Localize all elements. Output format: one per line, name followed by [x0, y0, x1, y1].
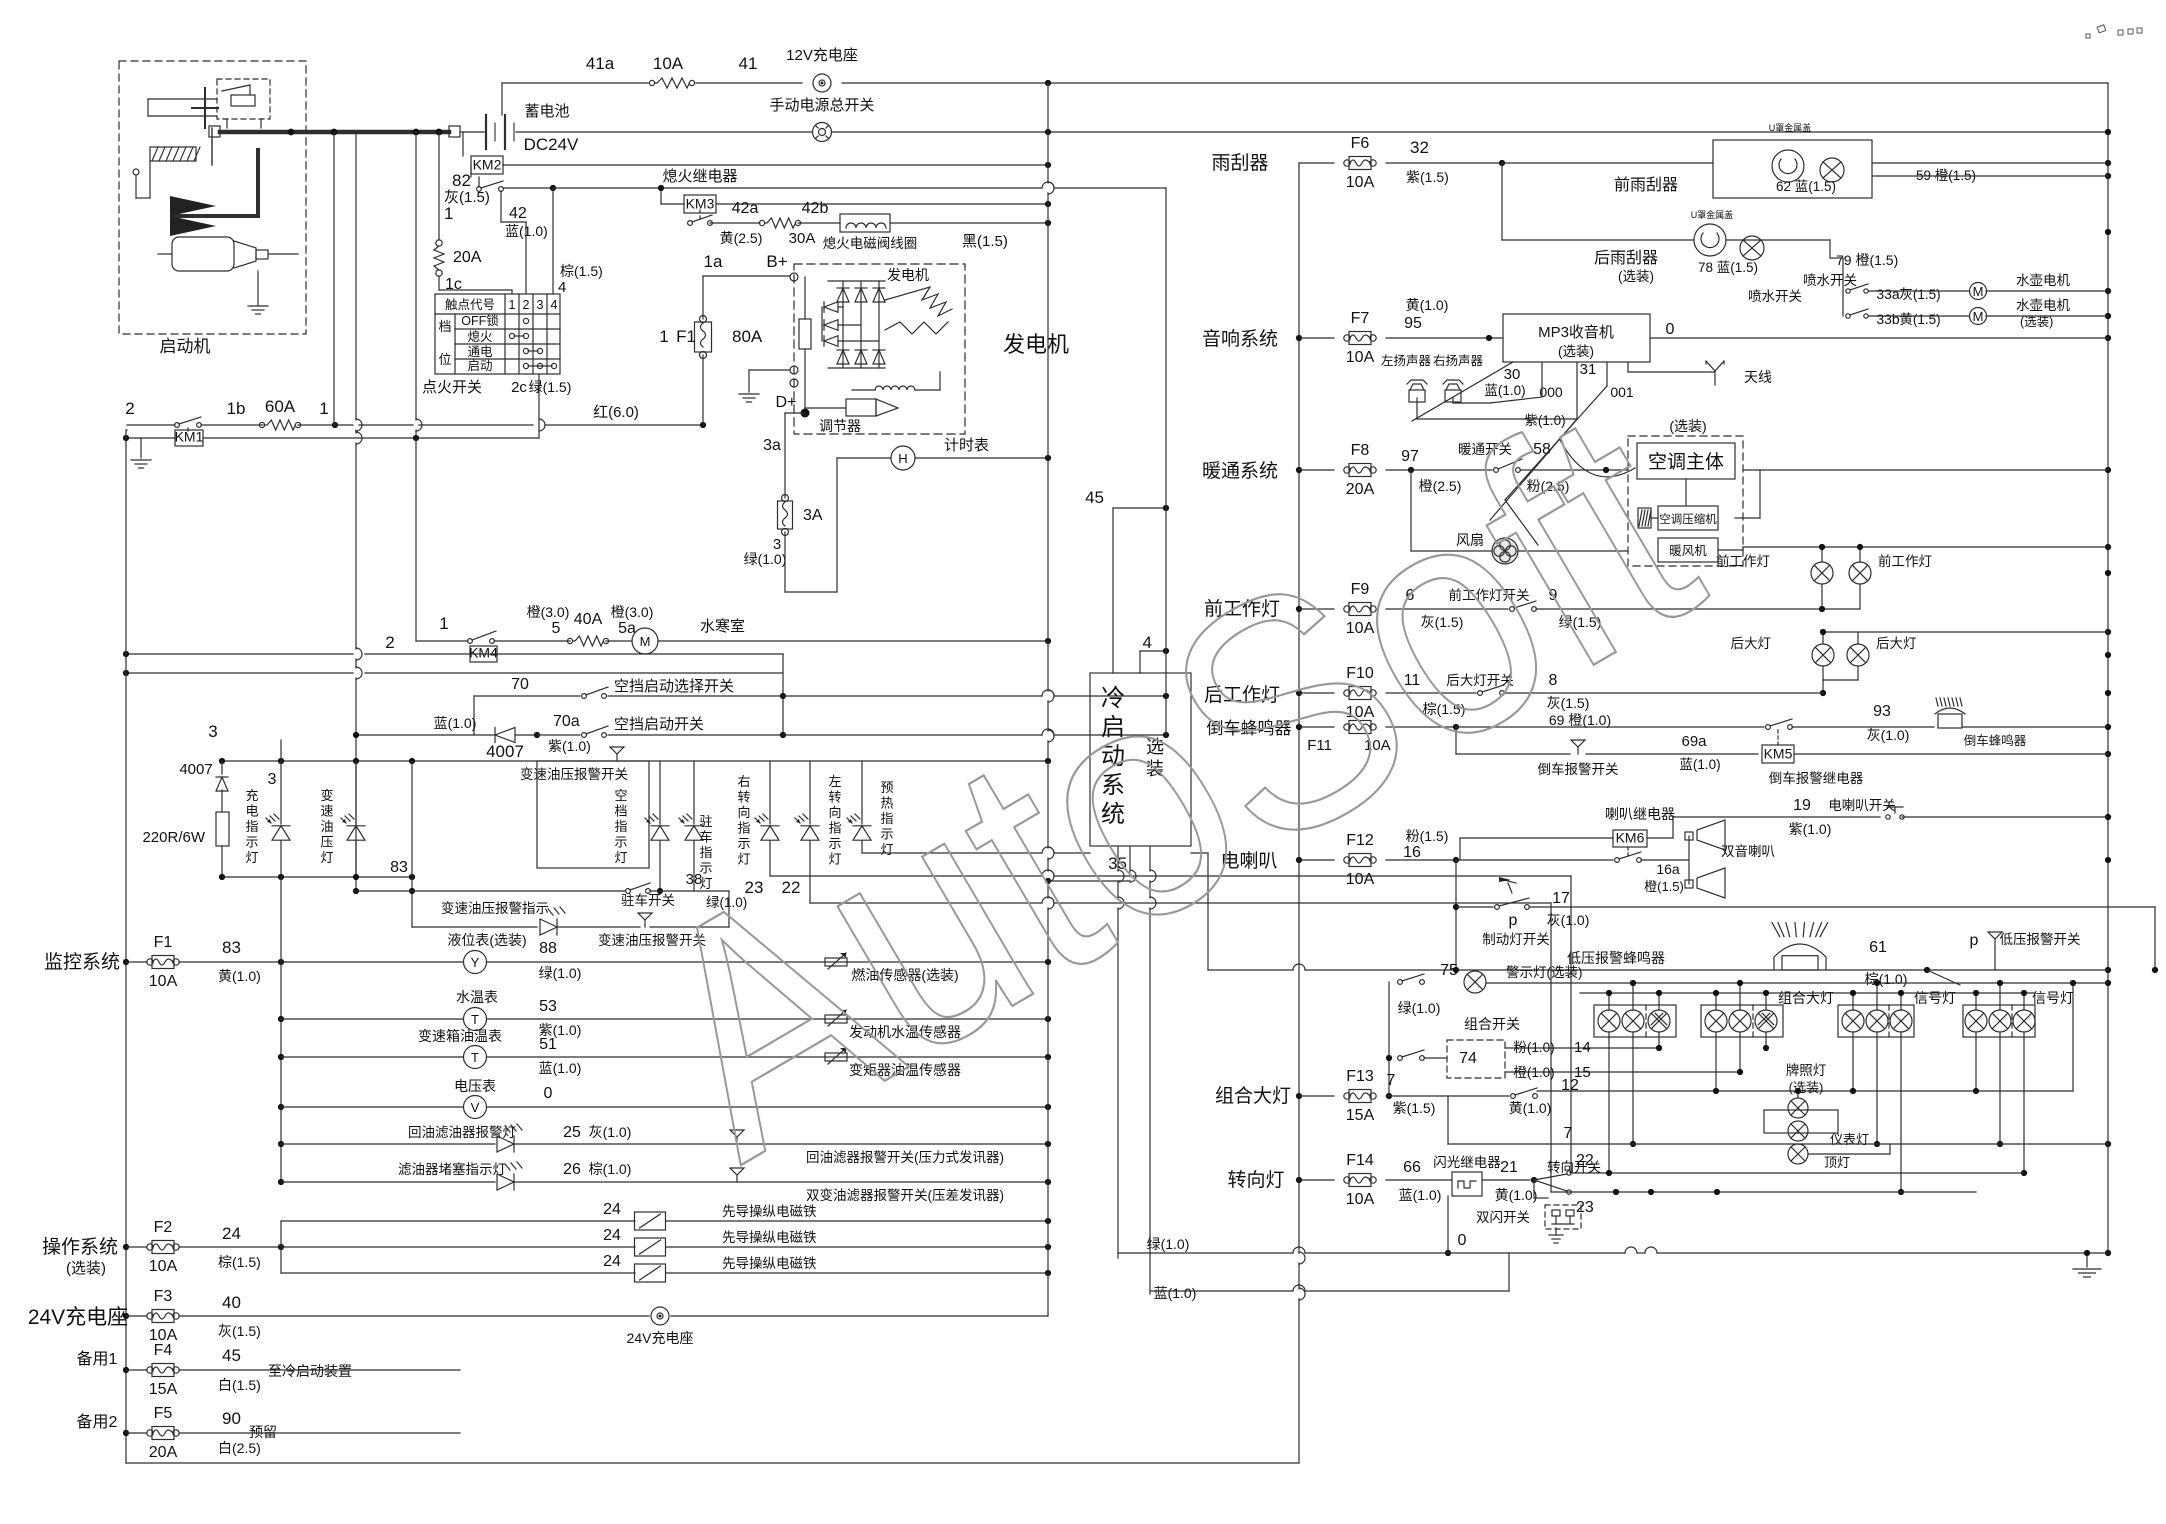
- svg-text:62 蓝(1.5): 62 蓝(1.5): [1776, 179, 1836, 194]
- generator dashed box 发电机: [794, 264, 965, 434]
- fuse F11 10A: [1349, 721, 1371, 734]
- svg-text:M: M: [1973, 309, 1984, 324]
- svg-text:66: 66: [1403, 1159, 1421, 1176]
- collector row y=877 + node 83: [222, 876, 412, 878]
- svg-text:24: 24: [603, 1253, 621, 1270]
- HVAC switch 暖通开关: [1386, 469, 1492, 471]
- svg-text:粉(1.0): 粉(1.0): [1513, 1040, 1554, 1055]
- solenoid plunger / armature: [204, 88, 206, 128]
- rear lamp switch 后大灯开关: [1386, 692, 1476, 694]
- svg-text:变: 变: [320, 788, 333, 803]
- svg-text:电压表: 电压表: [454, 1078, 496, 1094]
- svg-text:93: 93: [1873, 703, 1891, 720]
- svg-text:KM4: KM4: [469, 645, 498, 661]
- svg-text:黄(1.0): 黄(1.0): [1406, 297, 1449, 313]
- svg-text:油: 油: [320, 819, 333, 834]
- svg-text:转: 转: [737, 790, 750, 805]
- front work lamp switch 前工作灯开关: [1386, 608, 1508, 610]
- svg-text:41: 41: [739, 54, 758, 73]
- svg-text:充: 充: [245, 788, 258, 803]
- svg-text:双音喇叭: 双音喇叭: [1721, 843, 1775, 859]
- svg-text:倒车报警继电器: 倒车报警继电器: [1769, 770, 1864, 786]
- contact terminal small circle: [133, 169, 139, 175]
- solenoid feed bracket: [280, 1221, 282, 1273]
- svg-text:液位表(选装): 液位表(选装): [447, 932, 526, 948]
- turn lamp rows 22/23: [1571, 1172, 2024, 1174]
- vertical x=359 crossing rows (S-jogs) down to indicator rows: [355, 132, 357, 420]
- wiper feed wire: [1386, 162, 1502, 164]
- lamp cluster top bus pair: [1486, 982, 2108, 984]
- svg-text:黄(1.0): 黄(1.0): [1495, 1187, 1538, 1203]
- svg-text:10A: 10A: [1346, 1191, 1375, 1208]
- svg-text:1b: 1b: [227, 399, 246, 418]
- cold start feed vertical from KM2: [1165, 188, 1167, 736]
- svg-text:压: 压: [320, 835, 333, 850]
- row to 24V socket: [179, 1315, 649, 1317]
- fuse F6 10A: [1299, 162, 1334, 164]
- svg-text:紫(1.5): 紫(1.5): [1406, 169, 1449, 185]
- svg-text:3a: 3a: [763, 437, 781, 454]
- relay KM5: [1762, 745, 1794, 763]
- wire 1a: [703, 275, 790, 277]
- svg-text:12V充电座: 12V充电座: [786, 47, 858, 64]
- svg-text:220R/6W: 220R/6W: [142, 829, 205, 846]
- svg-text:水寒室: 水寒室: [700, 617, 745, 635]
- svg-text:变速油压报警开关: 变速油压报警开关: [520, 767, 628, 782]
- starter relay (dashed box with contact): [217, 79, 270, 119]
- svg-text:调节器: 调节器: [819, 418, 861, 434]
- svg-text:橙(3.0): 橙(3.0): [527, 604, 570, 620]
- warning lamp 警示灯(选装): [1388, 982, 1390, 1096]
- svg-text:(选装): (选装): [1618, 269, 1654, 284]
- svg-text:25: 25: [563, 1124, 581, 1141]
- right supply bus x=2108: [2107, 83, 2109, 1253]
- svg-text:H: H: [898, 451, 907, 466]
- cold start option box 冷启动选装系统: [1090, 673, 1191, 846]
- svg-text:3: 3: [537, 298, 544, 312]
- svg-text:启动: 启动: [467, 359, 492, 373]
- svg-text:17: 17: [1552, 890, 1570, 907]
- dual filter warning switch 双变油滤器报警开关: [730, 1168, 744, 1175]
- fuel sensor 燃油传感器: [825, 958, 847, 966]
- generator rectifier diodes bottom row: [837, 350, 849, 364]
- A/C wiring to bus: [1743, 469, 2108, 471]
- main black return bus (vertical): [1047, 83, 1049, 183]
- headlamp cluster 2 box: [1701, 1005, 1783, 1037]
- svg-text:(选装): (选装): [66, 1260, 106, 1277]
- svg-text:F2: F2: [154, 1219, 173, 1236]
- generator exciter diodes (left): [824, 302, 838, 313]
- KM1 ground branch: [140, 438, 142, 458]
- wire KM2 switch output to cold-start vertical (hop over main bus): [503, 187, 553, 189]
- red 6.0 wire to F1/generator: [335, 424, 353, 426]
- svg-text:2: 2: [385, 633, 394, 652]
- svg-text:24: 24: [222, 1224, 241, 1243]
- battery thick bus bar with terminals: [209, 126, 220, 137]
- svg-text:42b: 42b: [802, 200, 829, 217]
- box right output to low-voltage alarm row: [1191, 852, 1208, 854]
- svg-text:3: 3: [268, 771, 277, 788]
- svg-text:F4: F4: [154, 1342, 173, 1359]
- left bus vertical: [125, 430, 127, 1463]
- svg-text:F7: F7: [1351, 310, 1370, 327]
- svg-text:触点代号: 触点代号: [445, 298, 495, 312]
- svg-text:档: 档: [614, 804, 627, 819]
- long distribution row y=761: [222, 760, 1048, 762]
- svg-text:KM3: KM3: [686, 196, 715, 212]
- battery 蓄电池 DC24V: [460, 131, 484, 133]
- svg-text:OFF锁: OFF锁: [461, 313, 499, 328]
- signal lamp cluster 4 box 信号灯: [1963, 1005, 2035, 1037]
- svg-text:黄(2.5): 黄(2.5): [720, 230, 763, 246]
- svg-text:蓝(1.0): 蓝(1.0): [1679, 757, 1720, 772]
- dome lamp 顶灯: [1788, 1144, 1808, 1164]
- svg-text:(选装): (选装): [1669, 418, 1706, 434]
- svg-text:闪光继电器: 闪光继电器: [1433, 1155, 1501, 1170]
- svg-text:指: 指: [614, 819, 627, 834]
- gearbox oil warn indicator row 927: [412, 926, 537, 928]
- wire battery to 12V socket row: [501, 83, 503, 115]
- svg-text:天线: 天线: [1744, 369, 1772, 385]
- reverse alarm switch 倒车报警开关: [1571, 740, 1585, 747]
- svg-text:0: 0: [544, 1085, 553, 1102]
- svg-text:1: 1: [659, 327, 668, 346]
- svg-text:灰(1.5): 灰(1.5): [1899, 287, 1940, 302]
- fuse F9 10A: [1299, 608, 1334, 610]
- svg-text:M: M: [1973, 284, 1984, 299]
- svg-text:黄(1.5): 黄(1.5): [1899, 312, 1940, 327]
- svg-text:熄火: 熄火: [467, 330, 493, 344]
- svg-text:30A: 30A: [789, 230, 816, 247]
- svg-text:5: 5: [552, 620, 561, 637]
- svg-text:60A: 60A: [265, 397, 296, 416]
- svg-text:仪表灯: 仪表灯: [1830, 1132, 1869, 1147]
- svg-text:7: 7: [1564, 1125, 1573, 1142]
- svg-text:信号灯: 信号灯: [2032, 990, 2074, 1006]
- svg-text:F14: F14: [1346, 1152, 1374, 1169]
- battery positive row y=132: [516, 131, 812, 133]
- ignition switch contact table: [435, 294, 560, 374]
- wire 3a to fuse 3A and hour meter: [785, 412, 805, 414]
- svg-text:33b: 33b: [1876, 311, 1900, 327]
- svg-text:1a: 1a: [704, 252, 723, 271]
- svg-text:棕(1.0): 棕(1.0): [1865, 971, 1908, 987]
- svg-text:熄火继电器: 熄火继电器: [662, 168, 737, 185]
- starter pinion fork (thick): [256, 150, 260, 216]
- fuse F2 10A: [126, 1246, 147, 1248]
- fuse F1 10A: [126, 961, 147, 963]
- instrument lamp 仪表灯: [1788, 1121, 1808, 1141]
- svg-text:24V充电座: 24V充电座: [28, 1306, 128, 1329]
- A/C main unit 空调主体: [1637, 443, 1735, 479]
- low voltage alarm row: [1208, 969, 1293, 971]
- charge indicator lamp 充电指示灯: [280, 740, 282, 824]
- svg-text:21: 21: [1500, 1159, 1518, 1176]
- reverse buzzer 倒车蜂鸣器: [1938, 714, 1962, 728]
- svg-text:0: 0: [1666, 321, 1675, 338]
- svg-text:备用2: 备用2: [77, 1413, 118, 1431]
- washer motor 水壶电机 b (选装): [1868, 315, 1969, 317]
- svg-text:23: 23: [1576, 1199, 1594, 1216]
- svg-text:10A: 10A: [653, 54, 684, 73]
- generator B+ terminal: [790, 273, 798, 281]
- preheat indicator LED 预热指示灯: [861, 761, 863, 824]
- generator field winding: [875, 386, 915, 390]
- watermark AutoSoft: [590, 338, 1749, 1227]
- svg-text:紫(1.0): 紫(1.0): [548, 738, 591, 754]
- svg-text:M: M: [640, 634, 651, 649]
- svg-text:前工作灯: 前工作灯: [1716, 553, 1770, 569]
- relay KM2 coil: [462, 132, 464, 156]
- svg-text:水壶电机: 水壶电机: [2016, 298, 2071, 313]
- svg-text:42: 42: [509, 205, 527, 222]
- svg-text:白(1.5): 白(1.5): [218, 1377, 261, 1393]
- torque converter oil temp sensor 变矩器油温传感器: [825, 1053, 847, 1061]
- engine water temp sensor 发动机水温传感器: [825, 1015, 847, 1023]
- parking indicator LED 驻车指示灯: [693, 761, 695, 824]
- svg-text:70a: 70a: [553, 713, 580, 730]
- svg-text:启动机: 启动机: [160, 337, 211, 356]
- svg-text:监控系统: 监控系统: [44, 951, 120, 973]
- wire 2c green down (joins row 438): [538, 374, 540, 380]
- fuse 20A in-line: [436, 240, 442, 246]
- speaker wires: [1541, 362, 1543, 397]
- svg-text:51: 51: [539, 1036, 557, 1053]
- diode 4007 + resistor 220R/6W branch: [221, 761, 223, 774]
- fuse F12 10A: [1299, 859, 1334, 861]
- starter motor body: [172, 237, 234, 271]
- bottom-right ground: [2086, 1253, 2088, 1267]
- svg-text:组合开关: 组合开关: [1464, 1016, 1520, 1032]
- svg-text:倒车蜂鸣器: 倒车蜂鸣器: [1964, 733, 2027, 748]
- svg-text:暖通系统: 暖通系统: [1202, 460, 1278, 482]
- row 438 from left bus through KM1 coil to ignition 2c: [126, 437, 175, 439]
- svg-text:V: V: [471, 1100, 480, 1115]
- brake lamp switch 制动灯开关: [1455, 860, 1457, 970]
- svg-text:棕(1.5): 棕(1.5): [218, 1254, 261, 1270]
- fuse F14 10A: [1299, 1179, 1334, 1181]
- MP3 radio MP3收音机 (选装): [1503, 314, 1650, 362]
- monitor feed row to gauges: [179, 961, 463, 963]
- work lamp bus from heater to right: [1743, 546, 2108, 548]
- row 2 (KM4 coil row): [126, 653, 353, 655]
- svg-text:T: T: [471, 1012, 479, 1027]
- wire 预热 to cold start box: [862, 852, 1042, 854]
- svg-text:83: 83: [222, 938, 241, 957]
- svg-text:16a: 16a: [1656, 861, 1680, 877]
- svg-text:24: 24: [603, 1201, 621, 1218]
- svg-text:83: 83: [390, 859, 408, 876]
- svg-text:空: 空: [614, 788, 627, 803]
- svg-text:绿(1.0): 绿(1.0): [1398, 1000, 1441, 1016]
- svg-text:位: 位: [438, 352, 451, 367]
- fuse F10 10A: [1299, 692, 1334, 694]
- svg-text:灰(1.0): 灰(1.0): [589, 1124, 632, 1140]
- svg-text:D+: D+: [776, 394, 797, 411]
- svg-text:黑(1.5): 黑(1.5): [962, 233, 1008, 250]
- KM3 switch + wire 42a: [688, 221, 693, 226]
- svg-text:白(2.5): 白(2.5): [218, 1440, 261, 1456]
- svg-text:喷水开关: 喷水开关: [1803, 273, 1857, 288]
- svg-text:KM2: KM2: [473, 157, 502, 173]
- svg-text:示: 示: [245, 835, 258, 850]
- svg-text:32: 32: [1410, 138, 1429, 157]
- svg-text:雨刮器: 雨刮器: [1211, 152, 1268, 174]
- svg-text:B+: B+: [766, 252, 787, 271]
- relay KM1 switch: [175, 423, 180, 428]
- svg-text:蓝(1.0): 蓝(1.0): [539, 1060, 582, 1076]
- row to neutral-start block: [126, 672, 353, 674]
- bottom return bus: [126, 1462, 1299, 1464]
- svg-text:橙(3.0): 橙(3.0): [611, 604, 654, 620]
- svg-text:69a: 69a: [1681, 733, 1707, 750]
- fuse F13 15A: [1299, 1095, 1334, 1097]
- starter ground: [257, 271, 259, 305]
- hour meter 计时表: [891, 446, 915, 470]
- svg-text:2c: 2c: [511, 379, 527, 396]
- svg-text:灰(1.0): 灰(1.0): [1547, 912, 1590, 928]
- svg-text:灰(1.5): 灰(1.5): [218, 1323, 261, 1339]
- svg-text:预留: 预留: [249, 1424, 277, 1440]
- svg-text:15A: 15A: [149, 1381, 178, 1398]
- gauge bus vertical x=281: [280, 877, 282, 1182]
- svg-text:空挡启动开关: 空挡启动开关: [614, 716, 704, 733]
- svg-text:40A: 40A: [574, 611, 603, 628]
- pilot control solenoid 1 先导操纵电磁铁: [281, 1220, 635, 1222]
- svg-text:p: p: [1509, 912, 1518, 929]
- pilot control solenoid 3 先导操纵电磁铁: [281, 1272, 635, 1274]
- vertical x=416 from bar over row425 to heater switch row: [415, 132, 417, 420]
- svg-text:制动灯开关: 制动灯开关: [1482, 932, 1550, 947]
- svg-text:电: 电: [245, 804, 258, 819]
- svg-text:灰(1.0): 灰(1.0): [1867, 727, 1910, 743]
- box bottom wire to blue row: [1149, 846, 1151, 871]
- right turn indicator LED 右转向指示灯: [769, 761, 771, 824]
- svg-text:黄(1.0): 黄(1.0): [1509, 1100, 1552, 1116]
- washer motor 水壶电机 a: [1868, 290, 1969, 292]
- svg-text:42a: 42a: [732, 200, 759, 217]
- svg-text:10A: 10A: [149, 1258, 178, 1275]
- wire 14 粉(1.0): [1505, 1047, 1660, 1049]
- svg-text:001: 001: [1610, 384, 1634, 400]
- wire 42 blue KM2 to ignition pin2: [500, 191, 502, 222]
- wire 19 to horn switch: [1647, 837, 1673, 839]
- return filter warning switch 回油滤器报警开关: [730, 1130, 744, 1137]
- svg-text:计时表: 计时表: [944, 437, 989, 454]
- svg-text:橙(1.5): 橙(1.5): [1644, 879, 1684, 894]
- svg-text:滤油器堵塞指示灯: 滤油器堵塞指示灯: [398, 1161, 506, 1177]
- generator internal vertical + resistor: [804, 277, 806, 319]
- svg-text:1: 1: [509, 298, 516, 312]
- svg-text:蓝(1.0): 蓝(1.0): [1154, 1285, 1197, 1301]
- fuse F1 80A (vertical): [702, 276, 704, 319]
- svg-text:1: 1: [439, 614, 448, 633]
- 12V charging socket 12V充电座: [813, 74, 831, 92]
- svg-text:2: 2: [125, 399, 134, 418]
- generator rectifier diodes top row: [828, 280, 885, 282]
- svg-text:KM6: KM6: [1616, 830, 1645, 846]
- svg-text:1: 1: [444, 204, 453, 223]
- svg-text:14: 14: [1574, 1039, 1591, 1056]
- svg-text:蓝(1.0): 蓝(1.0): [505, 223, 548, 239]
- svg-text:左扬声器: 左扬声器: [1381, 353, 1432, 368]
- gearbox oil pressure warning switch on row 761: [610, 747, 624, 754]
- svg-text:双闪开关: 双闪开关: [1476, 1210, 1530, 1225]
- starter solenoid coil (hatched): [150, 147, 196, 161]
- svg-text:45: 45: [1085, 488, 1104, 507]
- svg-text:F1: F1: [154, 934, 173, 951]
- svg-text:操作系统: 操作系统: [42, 1236, 118, 1258]
- svg-text:61: 61: [1869, 939, 1887, 956]
- svg-text:变速箱油温表: 变速箱油温表: [418, 1028, 502, 1044]
- svg-text:速: 速: [320, 804, 333, 819]
- svg-text:p: p: [1970, 932, 1979, 949]
- heater fan unit 暖风机: [1658, 538, 1718, 562]
- svg-text:U罩金属盖: U罩金属盖: [1769, 122, 1812, 133]
- svg-text:F1: F1: [676, 327, 696, 346]
- svg-text:熄火电磁阀线圈: 熄火电磁阀线圈: [823, 235, 918, 251]
- svg-text:24V充电座: 24V充电座: [627, 1330, 694, 1346]
- corner marks (top right): [2086, 25, 2142, 38]
- svg-text:F3: F3: [154, 1288, 173, 1305]
- svg-text:水温表: 水温表: [456, 989, 498, 1005]
- svg-text:MP3收音机: MP3收音机: [1538, 324, 1614, 341]
- flame-out solenoid coil 熄火电磁阀线圈: [798, 222, 840, 224]
- svg-text:15A: 15A: [1346, 1107, 1375, 1124]
- svg-text:紫(1.0): 紫(1.0): [1789, 821, 1832, 837]
- svg-text:后雨刮器: 后雨刮器: [1594, 249, 1658, 267]
- neutral indicator LED: [659, 761, 661, 824]
- svg-text:驻: 驻: [699, 814, 712, 829]
- svg-text:橙(1.0): 橙(1.0): [1513, 1065, 1554, 1080]
- wire from relay to battery bus: [148, 98, 217, 100]
- svg-text:红(6.0): 红(6.0): [593, 404, 639, 421]
- relay KM4 switch: [468, 639, 473, 644]
- svg-text:右扬声器: 右扬声器: [1433, 353, 1484, 368]
- head lamp switch + wire 12 黄(1.0): [1386, 1095, 1509, 1097]
- svg-text:喇叭继电器: 喇叭继电器: [1605, 806, 1675, 822]
- pilot control solenoid 2 先导操纵电磁铁: [281, 1246, 635, 1248]
- headlamp cluster 1 box: [1594, 1005, 1676, 1037]
- svg-text:绿(1.0): 绿(1.0): [539, 965, 582, 981]
- switch 74 (dashed block): [1398, 1056, 1403, 1061]
- svg-text:F6: F6: [1351, 135, 1370, 152]
- svg-text:绿(1.0): 绿(1.0): [744, 551, 787, 567]
- fuse F3 10A: [126, 1315, 147, 1317]
- svg-text:3A: 3A: [803, 507, 823, 524]
- fuse 30A in-line: [759, 220, 764, 225]
- svg-text:82: 82: [452, 171, 471, 190]
- wire 1c to ignition switch pin1: [438, 276, 440, 290]
- svg-text:4007: 4007: [486, 742, 524, 761]
- wire brown 棕(1.5) node4 to ignition pin4: [552, 188, 554, 294]
- ignition table contacts: [523, 318, 528, 323]
- svg-text:发电机: 发电机: [887, 267, 929, 283]
- A/C compressor 空调压缩机: [1658, 506, 1718, 530]
- svg-text:74: 74: [1459, 1050, 1477, 1067]
- svg-text:7: 7: [1387, 1072, 1396, 1089]
- water jacket heater motor 水寒室: [632, 628, 658, 654]
- generator regulator 调节器: [846, 399, 876, 416]
- wire 15 橙(1.0): [1505, 1071, 1740, 1073]
- svg-text:2: 2: [523, 298, 530, 312]
- svg-text:音响系统: 音响系统: [1202, 328, 1278, 350]
- svg-text:右: 右: [737, 774, 750, 789]
- svg-text:发电机: 发电机: [1003, 332, 1069, 357]
- svg-text:F5: F5: [154, 1405, 173, 1422]
- svg-text:3: 3: [208, 722, 217, 741]
- svg-text:手动电源总开关: 手动电源总开关: [769, 97, 874, 114]
